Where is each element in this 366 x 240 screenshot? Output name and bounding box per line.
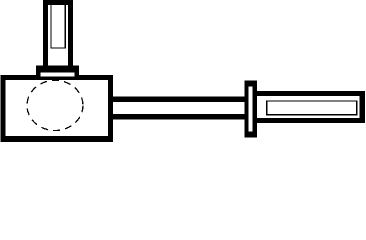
right wide shaft xyxy=(256,91,365,123)
right flange disc xyxy=(244,81,257,138)
dashed circle (gear pitch circle) xyxy=(27,80,83,130)
vertical shaft inner bore xyxy=(50,5,66,49)
right shaft inner rectangle xyxy=(266,100,357,115)
gearbox housing box xyxy=(1,75,114,142)
vertical shaft (top) xyxy=(43,0,73,67)
vertical shaft flange xyxy=(36,66,79,77)
horizontal shaft channel (box to flange) xyxy=(110,97,245,120)
